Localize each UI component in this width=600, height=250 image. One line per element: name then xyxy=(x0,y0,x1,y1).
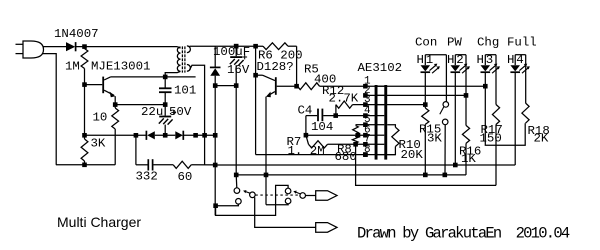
svg-text:332: 332 xyxy=(136,170,158,184)
AC plug P1 xyxy=(16,43,24,45)
node mini-res junction p6 xyxy=(356,133,361,138)
IC pin 7 crossing xyxy=(378,143,385,145)
node emitter MJE xyxy=(113,102,118,107)
node 100uF to rail2 xyxy=(234,173,239,178)
node switch feed xyxy=(213,203,218,208)
wire collector D1287 column xyxy=(255,46,257,154)
node R6 left xyxy=(253,44,258,49)
svg-text:2: 2 xyxy=(456,53,463,67)
wire plug neutral down-left side xyxy=(43,54,57,165)
IC pin 1 crossing xyxy=(378,85,385,87)
svg-text:50V: 50V xyxy=(169,105,192,119)
dashed mechanical link xyxy=(255,194,299,196)
wire emitter MJE down xyxy=(114,96,116,104)
svg-text:1: 1 xyxy=(426,53,433,67)
switch S1 contact A xyxy=(234,188,240,194)
node mini-res junction p7 xyxy=(353,142,358,147)
svg-text:1. 2M: 1. 2M xyxy=(288,144,325,158)
IC AE3102 body xyxy=(375,85,378,160)
wire R7 to pin7 row xyxy=(328,143,378,145)
wire collector MJE to 101-cap node xyxy=(111,76,196,78)
svg-text:3: 3 xyxy=(486,53,493,67)
svg-text:MJE13001: MJE13001 xyxy=(91,60,151,74)
IC pin 4 crossing xyxy=(378,115,385,117)
wire to rail1 xyxy=(191,164,215,166)
wire diode anode to 100uF bottom xyxy=(215,85,236,87)
output terminal lower xyxy=(316,223,337,233)
wire feedback row xyxy=(85,134,147,136)
svg-text:H: H xyxy=(447,53,454,67)
LED H3 xyxy=(481,65,491,71)
node base MJE13001 xyxy=(82,82,87,87)
transistor MJE13001 xyxy=(102,77,104,94)
svg-text:20K: 20K xyxy=(401,148,424,162)
LED H1 box xyxy=(425,54,446,56)
svg-text:1M: 1M xyxy=(65,59,80,73)
diode D left (cathode left) xyxy=(145,131,147,140)
svg-text:PW: PW xyxy=(447,36,462,50)
node pin2/H2 xyxy=(464,93,469,98)
wire pole F to upper output xyxy=(306,195,316,197)
node R15 to rail2 xyxy=(423,173,428,178)
node collector/primary xyxy=(163,75,168,80)
transformer secondary coil xyxy=(187,46,191,71)
LED H1 xyxy=(421,65,431,71)
svg-text:3K: 3K xyxy=(91,137,106,151)
capacitor C4 104 xyxy=(306,115,317,117)
svg-text:Multi Charger: Multi Charger xyxy=(57,214,141,230)
diode D right (cathode right) xyxy=(175,131,183,139)
IC pin 6 crossing xyxy=(378,134,385,136)
wire H1 LED down to pin3 node and R15 xyxy=(424,73,426,105)
resistor R12 2.7K xyxy=(335,105,337,116)
wire R12 to pin3, through IC to H1 xyxy=(353,104,426,106)
svg-text:1N4007: 1N4007 xyxy=(54,27,99,41)
IC pin 5 crossing xyxy=(378,124,385,126)
wire H4 LED down to rail1 end xyxy=(514,73,516,165)
svg-text:680: 680 xyxy=(335,150,357,164)
wire plug to diode xyxy=(43,46,66,48)
svg-text:Full: Full xyxy=(507,36,537,50)
svg-text:22u: 22u xyxy=(141,105,163,119)
node rail1 at x215 xyxy=(213,163,218,168)
svg-text:60: 60 xyxy=(178,170,193,184)
resistor R6 200 xyxy=(263,43,288,50)
resistor 1M xyxy=(81,49,88,69)
node 22u top xyxy=(163,102,168,107)
IC pin 2 crossing xyxy=(378,94,385,96)
wire rail2 xyxy=(236,174,466,176)
svg-text:1K: 1K xyxy=(461,152,476,166)
H4 right side + R18 xyxy=(525,55,527,103)
wire H2 LED down to rail1 xyxy=(454,73,456,165)
node diode anode xyxy=(213,83,218,88)
resistor R15 3K xyxy=(422,108,429,124)
LED H2 xyxy=(451,65,461,71)
capacitor 22u 50V electrolytic xyxy=(164,105,166,116)
switch S2 pole F xyxy=(300,193,306,199)
switch S1 contact C xyxy=(236,199,242,205)
mini resistor pin5-pin6 xyxy=(356,124,366,126)
switch S2 contact D xyxy=(285,188,291,194)
transformer core xyxy=(181,46,183,72)
svg-text:10: 10 xyxy=(93,110,108,124)
wire pole B down to lower output xyxy=(255,197,316,227)
wire H3 LED down, over to R18 xyxy=(485,73,525,145)
resistor R5 400 xyxy=(298,83,320,90)
LED H4 xyxy=(510,65,520,71)
node base/R6/R5 xyxy=(294,84,299,89)
wire switch feed row xyxy=(216,204,239,206)
resistor R17 150 xyxy=(492,105,499,125)
wire pin6 row xyxy=(306,134,377,136)
svg-text:Drawn by GarakutaEn 2010.04: Drawn by GarakutaEn 2010.04 xyxy=(357,225,570,243)
svg-text:C4: C4 xyxy=(298,103,313,117)
IC pin 3 crossing xyxy=(378,104,385,106)
H1 right side + switch S3 xyxy=(445,55,447,102)
svg-text:2.7K: 2.7K xyxy=(329,91,359,105)
wire pin2 to H2 right xyxy=(365,94,466,96)
svg-text:3K: 3K xyxy=(427,132,442,146)
node 3K top xyxy=(82,133,87,138)
wire emitter node to 22u node xyxy=(115,104,165,106)
resistor R18 2K xyxy=(522,103,529,123)
resistor R10 20K xyxy=(392,127,399,146)
svg-text:Chg: Chg xyxy=(477,36,499,50)
wire diodes to x215 xyxy=(183,134,215,136)
node 100uF bottom xyxy=(234,83,239,88)
wire emitter net to contact E xyxy=(266,203,288,206)
resistor R7 1.2M xyxy=(306,135,309,144)
diode 1N4007 xyxy=(66,42,75,51)
wire base MJE13001 xyxy=(85,84,103,86)
wire base D1287 to R5 xyxy=(277,85,298,87)
capacitor 100uF electrolytic xyxy=(235,46,237,56)
wire pin7 net down to bottom rail3 xyxy=(356,144,496,185)
LED H2 box xyxy=(455,54,466,56)
node emitter to rail2 xyxy=(264,173,269,178)
H2 right side + R16 xyxy=(465,55,467,126)
switch S1 pole B xyxy=(250,192,256,198)
node S3 to rail2 xyxy=(443,173,448,178)
svg-text:AE3102: AE3102 xyxy=(358,61,403,75)
node H2 to rail1 xyxy=(453,163,458,168)
svg-text:D128?: D128? xyxy=(257,60,294,74)
wire snubber left drop xyxy=(135,135,137,165)
node 3K bottom xyxy=(82,163,87,168)
node: rectified AC top xyxy=(82,44,87,49)
wire R5 to IC pin1 and on to H3 LED xyxy=(320,85,486,87)
wire secondary top xyxy=(190,45,264,47)
svg-text:4: 4 xyxy=(516,53,523,67)
node collector D1287 xyxy=(253,73,258,78)
rectifier diode (cathode up) xyxy=(214,46,216,67)
svg-text:H: H xyxy=(417,53,424,67)
node collector branch xyxy=(193,133,198,138)
node pin1/H3 xyxy=(483,84,488,89)
node C4/R7/pin6 xyxy=(304,133,309,138)
H3 right side + R17 xyxy=(495,55,497,105)
wire snubber row left xyxy=(136,164,148,166)
svg-text:150: 150 xyxy=(480,132,502,146)
wire between diodes xyxy=(155,134,176,136)
IC pin 8 crossing xyxy=(378,154,385,156)
wire cap to resistor 60 xyxy=(153,164,173,166)
node secondary branch xyxy=(202,133,207,138)
svg-text:H: H xyxy=(507,53,514,67)
mini resistor pin6-pin7 xyxy=(352,136,358,143)
resistor 3K xyxy=(81,139,88,161)
switch S2 contact E xyxy=(285,198,291,204)
transformer primary bottom stub to collector node xyxy=(165,71,180,77)
svg-text:H: H xyxy=(477,53,484,67)
wire pin8 row from collector column xyxy=(256,154,396,156)
wire H_b row to second pole upper contact xyxy=(216,185,289,215)
wire pin5 out to R10 xyxy=(365,124,377,126)
svg-text:2K: 2K xyxy=(534,132,549,146)
capacitor 101 xyxy=(164,77,166,88)
svg-text:Con: Con xyxy=(415,36,437,50)
svg-text:101: 101 xyxy=(174,83,196,97)
svg-text:100uF: 100uF xyxy=(213,45,250,59)
resistor 60 xyxy=(173,161,191,168)
node pin3/H1 xyxy=(423,102,428,107)
LED H3 box xyxy=(485,54,496,56)
node 22u bottom xyxy=(163,133,168,138)
node at x215 xyxy=(213,133,218,138)
wire secondary bottom drop xyxy=(190,65,205,165)
node C4/R12/pin4 xyxy=(333,113,338,118)
wire rail1 xyxy=(215,164,515,166)
wire diode to transformer primary top xyxy=(76,46,178,48)
resistor R16 1K xyxy=(462,125,469,143)
node 100uF top xyxy=(234,44,239,49)
resistor 10 xyxy=(112,108,119,129)
node pin8 xyxy=(363,152,368,157)
wire C4 left down to pin6 net xyxy=(305,116,307,136)
LED H4 box xyxy=(515,54,526,56)
transistor D1287 xyxy=(256,74,263,76)
capacitor 332 xyxy=(147,159,149,170)
node snubber top-left xyxy=(134,133,139,138)
wire R6 right down to base node xyxy=(296,46,298,86)
svg-text:104: 104 xyxy=(311,120,333,134)
wire emitter D1287 down xyxy=(265,97,267,205)
wire 100uF line to switch contact A xyxy=(235,175,238,188)
transformer primary coil xyxy=(177,47,180,71)
wire bottom-left rail xyxy=(56,164,115,166)
output terminal upper xyxy=(316,191,337,201)
